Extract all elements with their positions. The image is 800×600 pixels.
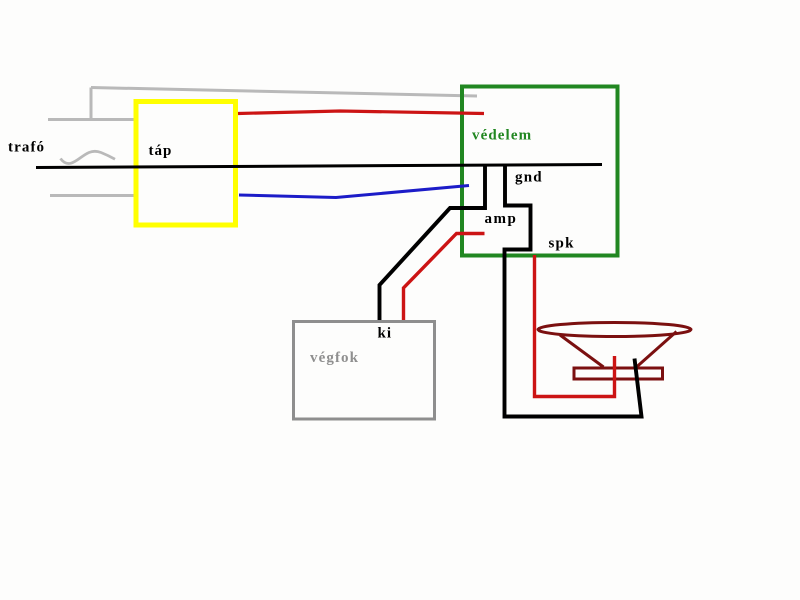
wire: main black ground line [36,165,602,168]
wire: gray mains riser [90,88,93,120]
speaker LS1 cone ellipse [538,323,691,337]
svg-text:spk: spk [549,236,575,252]
wire: red amp supply to végfok [404,234,485,321]
svg-text:trafó: trafó [8,140,45,156]
svg-text:amp: amp [485,211,518,227]
wire: gray mains lead upper horizontal [48,118,137,121]
svg-text:végfok: végfok [310,350,359,366]
wire: gray mains lead lower horizontal [50,194,137,197]
box U1 táp (power supply, yellow) [136,102,236,226]
AC sine symbol at transformer [61,151,116,163]
wire: black amp signal from gnd line to végfok ki [380,166,486,320]
wire: black speaker negative from gnd through védelem to LS1 [505,166,642,417]
speaker LS1 cone right side [637,332,677,368]
svg-text:ki: ki [378,326,393,342]
wire: blue V- from táp to védelem [239,186,469,198]
svg-text:gnd: gnd [515,170,543,186]
wire: red speaker positive from védelem to LS1 [535,255,615,397]
wire: gray mains long top run to védelem [91,88,477,97]
box U2 védelem (protection, green) [462,87,618,256]
svg-text:védelem: védelem [472,128,532,144]
box U3 végfok (power amplifier, gray) [294,322,435,420]
svg-text:táp: táp [149,143,173,159]
wire: red V+ from táp to védelem [238,111,484,114]
speaker LS1 magnet [574,368,663,379]
speaker LS1 cone left side [560,335,604,367]
